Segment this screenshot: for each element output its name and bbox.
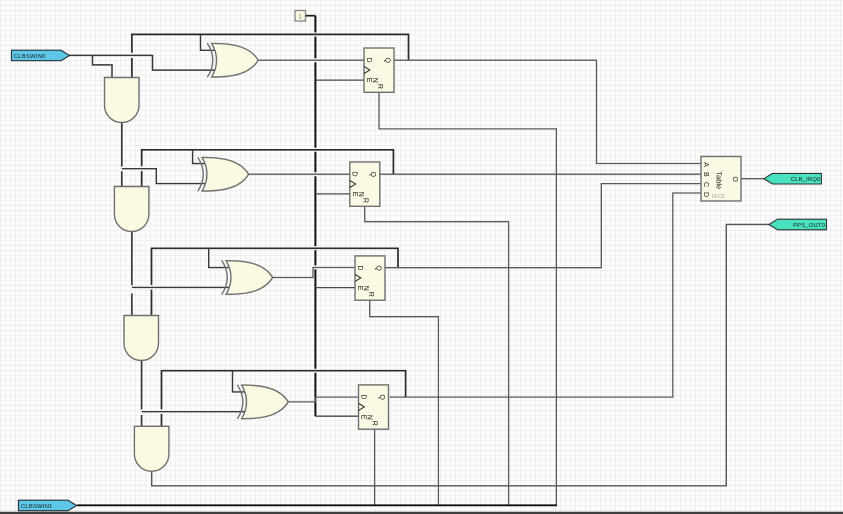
wire EN stub FF3 <box>315 287 355 289</box>
net FF3 Q to Table input C <box>384 184 701 268</box>
wire Table output O to CLB_IRQ0 <box>741 178 764 180</box>
XOR gate X3 <box>222 260 273 294</box>
feedback loop row3 (FF3 Q to AND3 right input) <box>152 248 399 315</box>
wire EN stub FF2 <box>315 193 349 195</box>
svg-text:Table: Table <box>715 171 724 189</box>
svg-text:CLB_IRQ0: CLB_IRQ0 <box>791 177 821 183</box>
XOR gate X4 <box>237 385 288 419</box>
net FF1 Q to Table input A <box>394 60 701 163</box>
stub feedback row3 to XOR3 top input <box>209 248 231 267</box>
flip-flop FF4 <box>359 385 389 429</box>
net FF2 Q to Table input B <box>380 173 701 175</box>
svg-text:B: B <box>702 172 709 177</box>
wire XOR1 output to FF1 D <box>258 59 364 61</box>
feedback loop row4 (FF4 Q to AND4 right input) <box>162 371 406 427</box>
clock/enable vertical net (with crossing gaps) <box>314 16 316 417</box>
branch to XOR3 lower input <box>132 286 230 288</box>
AND gate A3 <box>124 316 159 361</box>
wire XOR4 output to FF4 D (jog) <box>288 397 358 402</box>
wire XOR3 output to FF3 D (jog) <box>273 268 355 278</box>
net CLBSWIN1 rail <box>77 504 557 506</box>
svg-text:C: C <box>702 182 709 187</box>
flip-flop FF3 <box>355 256 385 300</box>
net FF4 R down to CLBSWIN1 rail <box>374 429 376 505</box>
branch Z-step to XOR2 lower input <box>122 169 207 184</box>
wire AND3 output down to AND4 left input <box>141 361 143 427</box>
svg-text:O: O <box>731 176 738 182</box>
stub feedback row1 to XOR1 top input <box>201 34 217 50</box>
XOR gate X1 <box>207 43 258 77</box>
constant 1 symbol <box>295 11 306 22</box>
wire AND1 output down to AND2 left input <box>121 123 123 187</box>
AND gate A4 <box>134 426 169 471</box>
net FF1 R to CLBSWIN1 rail <box>379 92 556 504</box>
wire AND2 output down to AND3 left input <box>131 232 133 316</box>
net FF2 R to CLBSWIN1 rail <box>365 206 509 504</box>
output port tag CLB_IRQ0 <box>764 173 822 184</box>
stub feedback row4 to XOR4 top input <box>233 371 246 392</box>
net FF4 Q to Table input D <box>390 193 701 397</box>
Table block FFC0 <box>701 157 741 202</box>
svg-text:A: A <box>702 162 709 167</box>
net AND4 output to PPS_OUT0 <box>152 224 769 485</box>
branch to XOR4 lower input <box>142 411 246 413</box>
feedback loop row2 (FF2 Q to AND2 right input) <box>142 150 394 187</box>
svg-text:PPS_OUT0: PPS_OUT0 <box>793 223 825 229</box>
stub feedback row2 to XOR2 top input <box>193 150 207 164</box>
svg-text:CLBSWIN1: CLBSWIN1 <box>21 504 53 510</box>
flip-flop FF1 <box>364 48 394 92</box>
XOR gate X2 <box>198 157 249 191</box>
AND gate A1 <box>105 78 140 123</box>
output port tag PPS_OUT0 <box>769 219 827 230</box>
net CLBSWIN0 from input tag <box>70 55 217 70</box>
net FF3 R to CLBSWIN1 rail <box>370 300 439 504</box>
wire EN stub FF1 <box>315 79 364 81</box>
svg-text:D: D <box>702 192 709 197</box>
input port tag CLBSWIN1 <box>19 500 77 511</box>
bottom window border <box>0 512 843 514</box>
feedback loop row1 (FF1 Q to AND1 right input) <box>132 34 409 78</box>
input port tag CLBSWIN0 <box>12 50 70 61</box>
wire from constant 1 to clock net <box>306 15 316 17</box>
svg-text:CLBSWIN0: CLBSWIN0 <box>14 54 46 60</box>
AND gate A2 <box>114 187 148 232</box>
svg-text:FFC0: FFC0 <box>712 194 725 200</box>
wire EN stub FF4 <box>315 415 358 417</box>
flip-flop FF2 <box>350 162 380 206</box>
wire XOR2 output to FF2 D <box>249 173 350 175</box>
branch of CLBSWIN0 to AND1 left input <box>93 55 113 78</box>
